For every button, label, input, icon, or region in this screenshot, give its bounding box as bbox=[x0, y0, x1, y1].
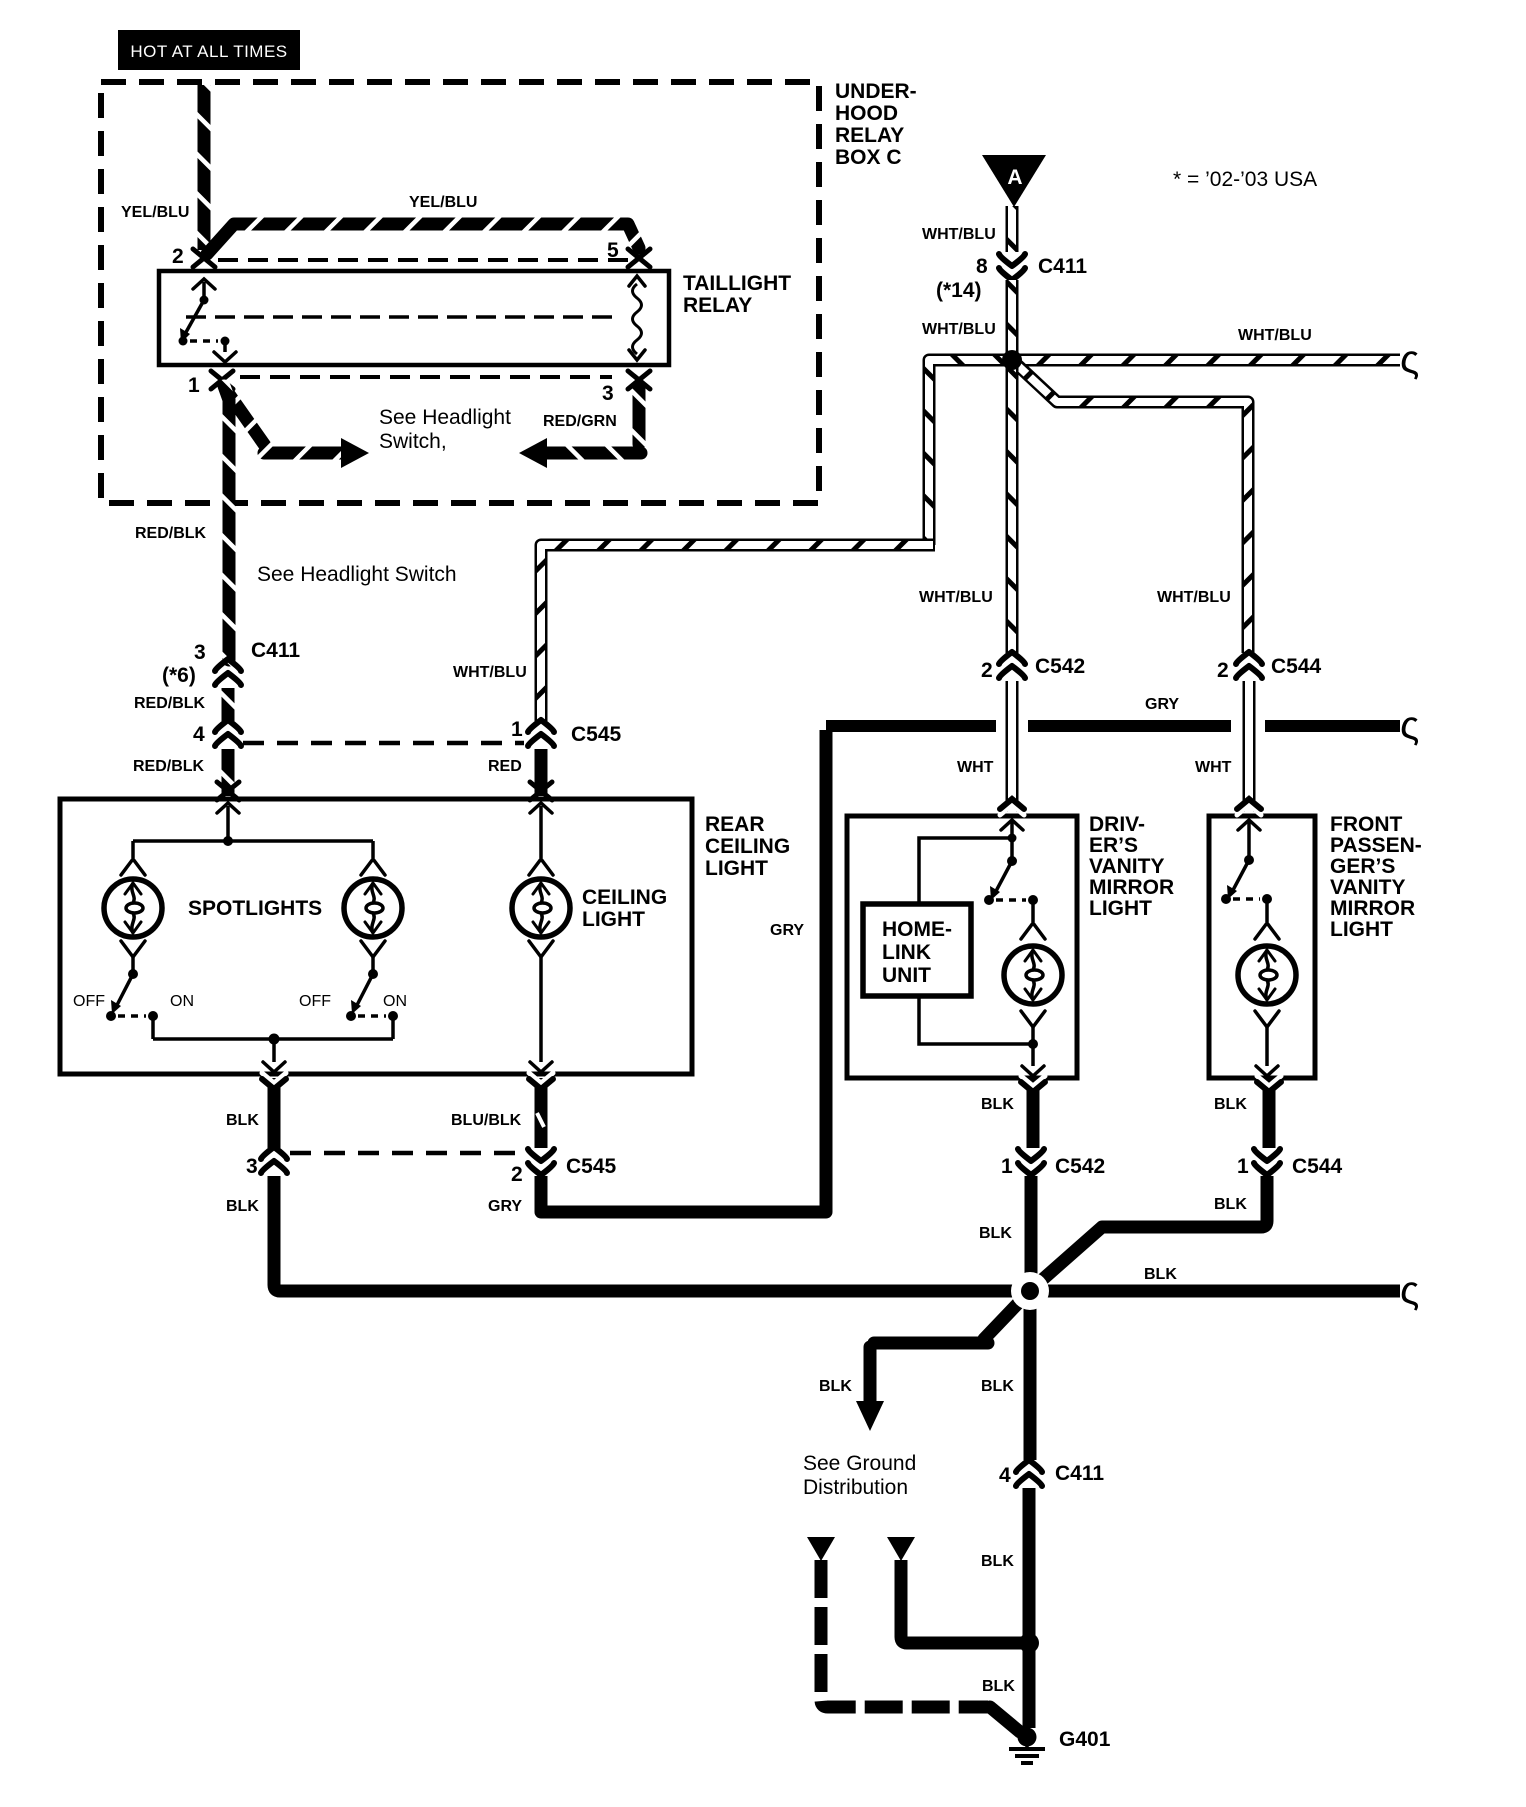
connector C411 pin 3 bbox=[162, 639, 300, 687]
connector C411 pin 8 bbox=[936, 254, 1087, 302]
wire WHT/BLU junction to C545 pin 1 (left path) bbox=[541, 360, 1012, 721]
svg-text:BLK: BLK bbox=[982, 1678, 1015, 1695]
svg-text:RED/BLK: RED/BLK bbox=[133, 758, 205, 775]
label BLK bbox=[226, 1112, 259, 1129]
driver vanity mirror light box bbox=[847, 816, 1077, 1078]
svg-text:4: 4 bbox=[193, 723, 205, 746]
connector C542 pin 1 bbox=[1001, 1149, 1105, 1178]
label WHT/BLU above C544 bbox=[1157, 589, 1231, 606]
bulb passenger vanity bbox=[1238, 923, 1296, 1027]
text See Ground Distribution bbox=[803, 1452, 916, 1499]
svg-text:2: 2 bbox=[981, 659, 993, 682]
label REAR CEILING LIGHT bbox=[705, 813, 790, 880]
wire YEL/BLU horizontal relay pin 2 to pin 5 bbox=[207, 224, 639, 254]
connector C545 pin 1 bbox=[511, 718, 622, 746]
wire WHT/BLU from C411-8 to junction bbox=[1006, 280, 1019, 360]
svg-text:1: 1 bbox=[1237, 1155, 1249, 1178]
svg-text:BLK: BLK bbox=[979, 1225, 1012, 1242]
rear ceiling light box bbox=[60, 799, 692, 1074]
svg-text:BLK: BLK bbox=[819, 1378, 852, 1395]
svg-text:(*14): (*14) bbox=[936, 279, 982, 302]
junction dot bbox=[269, 1034, 280, 1045]
label UNDER-HOOD RELAY BOX C bbox=[835, 80, 917, 169]
svg-text:TAILLIGHT: TAILLIGHT bbox=[683, 272, 791, 295]
label RED/BLK bbox=[133, 758, 205, 775]
label WHT bbox=[957, 759, 994, 776]
underhood relay box C (dashed boundary) bbox=[101, 82, 819, 503]
open end hook BLK bbox=[1400, 1269, 1419, 1313]
svg-text:5: 5 bbox=[607, 239, 619, 262]
svg-text:GRY: GRY bbox=[770, 922, 804, 939]
wire BLK junction down to C411-4 bbox=[1024, 1291, 1037, 1460]
svg-text:GER’S: GER’S bbox=[1330, 855, 1395, 878]
svg-text:WHT/BLU: WHT/BLU bbox=[1238, 327, 1312, 344]
wire RED/BLK between C411 pins 3 and 4 bbox=[222, 688, 235, 721]
svg-text:BLK: BLK bbox=[1214, 1196, 1247, 1213]
svg-text:YEL/BLU: YEL/BLU bbox=[121, 204, 189, 221]
wire BLK C542-1 to junction bbox=[1025, 1176, 1038, 1291]
svg-text:See Ground: See Ground bbox=[803, 1452, 916, 1475]
relay terminal 3 bbox=[602, 371, 650, 405]
svg-text:BLK: BLK bbox=[226, 1198, 259, 1215]
wire WHT/BLU from A to C411 pin 8 bbox=[1006, 206, 1019, 252]
relay terminal 2 bbox=[172, 245, 215, 268]
svg-text:RED/GRN: RED/GRN bbox=[543, 413, 617, 430]
svg-text:Distribution: Distribution bbox=[803, 1476, 908, 1499]
label WHT/BLU above C542 bbox=[919, 589, 993, 606]
dashed link C411-4 to C545-1 bbox=[243, 741, 524, 746]
svg-text:BLK: BLK bbox=[1144, 1266, 1177, 1283]
svg-text:8: 8 bbox=[976, 255, 988, 278]
wire YEL/BLU vertical from hot feed to relay pin 2 bbox=[198, 85, 211, 250]
relay internal switch bbox=[179, 279, 237, 362]
label FRONT PASSENGER S VANITY MIRROR LIGHT bbox=[1330, 813, 1422, 941]
label OFF / ON switch 1 bbox=[73, 993, 194, 1010]
bulb spotlight 2 bbox=[344, 859, 402, 957]
svg-text:VANITY: VANITY bbox=[1330, 876, 1405, 899]
switch spotlight 1 bbox=[106, 957, 158, 1039]
bulb driver vanity bbox=[1004, 923, 1062, 1027]
relay coil bbox=[629, 276, 645, 360]
label WHT/BLU bbox=[453, 664, 527, 681]
relay terminal 1 bbox=[188, 371, 233, 397]
junction dot ground bus bbox=[1019, 1633, 1039, 1653]
svg-text:OFF: OFF bbox=[299, 993, 331, 1010]
svg-text:HOME-: HOME- bbox=[882, 918, 952, 941]
label BLK bbox=[981, 1096, 1014, 1113]
svg-text:CEILING: CEILING bbox=[705, 835, 790, 858]
wire RED/GRN from relay pin 3 (arrow left) bbox=[519, 388, 641, 468]
svg-text:G401: G401 bbox=[1059, 1728, 1111, 1751]
connector C544 pin 1 bbox=[1237, 1149, 1343, 1178]
svg-text:* = ’02-’03 USA: * = ’02-’03 USA bbox=[1173, 168, 1317, 191]
svg-text:2: 2 bbox=[172, 245, 184, 268]
connector C411 pin 4 bbox=[999, 1460, 1104, 1487]
label BLK bbox=[982, 1678, 1015, 1695]
svg-text:C544: C544 bbox=[1292, 1155, 1343, 1178]
wire GRY from C545-2 to riser bbox=[541, 1176, 826, 1212]
svg-text:4: 4 bbox=[999, 1464, 1011, 1487]
wire BLU/BLK ceiling light out of box bbox=[529, 1073, 553, 1148]
bulb ceiling light bbox=[512, 859, 570, 957]
svg-text:FRONT: FRONT bbox=[1330, 813, 1402, 836]
exit arrow spotlights bbox=[263, 1062, 285, 1072]
wire RED/BLK relay pin 1 down to C411 bbox=[224, 386, 229, 660]
switch spotlight 2 bbox=[346, 957, 398, 1039]
svg-text:BLU/BLK: BLU/BLK bbox=[451, 1112, 522, 1129]
label BLU/BLK bbox=[451, 1112, 522, 1129]
svg-text:BLK: BLK bbox=[981, 1378, 1014, 1395]
junction dot bbox=[223, 836, 233, 846]
ground G401 bbox=[1009, 1728, 1111, 1764]
text See Headlight Switch bbox=[257, 563, 457, 586]
label RED/BLK bbox=[134, 695, 206, 712]
svg-text:RELAY: RELAY bbox=[683, 294, 752, 317]
label BLK bbox=[979, 1225, 1012, 1242]
wire BLK C544-1 diagonal to junction bbox=[1034, 1176, 1267, 1287]
text See Headlight Switch, bbox=[379, 406, 511, 453]
label YEL/BLU left bbox=[121, 204, 189, 221]
svg-text:C545: C545 bbox=[566, 1155, 617, 1178]
entry chevron driver box bbox=[1000, 799, 1024, 830]
label RED/BLK bbox=[135, 525, 207, 542]
wire WHT/BLU junction down to C542 pin 2 bbox=[1006, 360, 1019, 653]
wire GRY vertical from C545-2 riser bbox=[820, 730, 833, 1206]
svg-text:GRY: GRY bbox=[1145, 696, 1179, 713]
internal ground bus of spotlights bbox=[153, 1039, 393, 1062]
label WHT/BLU bbox=[922, 321, 996, 338]
svg-text:ON: ON bbox=[170, 993, 194, 1010]
svg-text:LIGHT: LIGHT bbox=[1330, 918, 1393, 941]
svg-text:WHT/BLU: WHT/BLU bbox=[453, 664, 527, 681]
svg-text:ER’S: ER’S bbox=[1089, 834, 1138, 857]
svg-text:YEL/BLU: YEL/BLU bbox=[409, 194, 477, 211]
svg-text:1: 1 bbox=[511, 718, 523, 741]
switch passenger vanity bbox=[1221, 822, 1272, 922]
svg-text:WHT/BLU: WHT/BLU bbox=[922, 321, 996, 338]
incoming ground triangle 1 (dashed) bbox=[807, 1537, 1020, 1732]
svg-text:ς: ς bbox=[1400, 704, 1419, 748]
label BLK bbox=[1214, 1196, 1247, 1213]
ceiling light feed entry bbox=[530, 782, 552, 813]
open end hook GRY bbox=[1400, 704, 1419, 748]
svg-text:LIGHT: LIGHT bbox=[1089, 897, 1152, 920]
svg-text:WHT/BLU: WHT/BLU bbox=[919, 589, 993, 606]
dashed line relay bottom terminals bbox=[240, 375, 612, 379]
svg-text:(*6): (*6) bbox=[162, 664, 196, 687]
label SPOTLIGHTS bbox=[188, 897, 322, 920]
label BLK bbox=[981, 1553, 1014, 1570]
svg-text:MIRROR: MIRROR bbox=[1089, 876, 1174, 899]
label OFF / ON switch 2 bbox=[299, 993, 407, 1010]
dashed line relay top terminals bbox=[218, 258, 628, 262]
svg-text:OFF: OFF bbox=[73, 993, 105, 1010]
svg-text:LIGHT: LIGHT bbox=[705, 857, 768, 880]
svg-text:DRIV-: DRIV- bbox=[1089, 813, 1145, 836]
svg-text:WHT: WHT bbox=[1195, 759, 1232, 776]
svg-text:3: 3 bbox=[194, 641, 206, 664]
switch driver vanity bbox=[984, 856, 1038, 922]
junction dot homelink tap bbox=[1008, 834, 1017, 843]
relay terminal 5 bbox=[607, 239, 650, 267]
svg-text:1: 1 bbox=[1001, 1155, 1013, 1178]
svg-text:See Headlight: See Headlight bbox=[379, 406, 511, 429]
wire WHT/BLU junction diagonal to C544 pin 2 bbox=[1012, 360, 1248, 653]
svg-text:3: 3 bbox=[602, 382, 614, 405]
svg-text:GRY: GRY bbox=[488, 1198, 522, 1215]
svg-text:SPOTLIGHTS: SPOTLIGHTS bbox=[188, 897, 322, 920]
dashed link conn3 to C545-2 bbox=[290, 1151, 524, 1156]
label RED bbox=[488, 758, 522, 775]
svg-text:C542: C542 bbox=[1055, 1155, 1105, 1178]
connector C411 pin 4 bbox=[193, 720, 241, 746]
label RED/GRN bbox=[543, 413, 617, 430]
open end hook bbox=[1400, 338, 1419, 382]
svg-text:RELAY: RELAY bbox=[835, 124, 904, 147]
svg-text:ς: ς bbox=[1400, 1269, 1419, 1313]
svg-text:BLK: BLK bbox=[1214, 1096, 1247, 1113]
label GRY bbox=[488, 1198, 522, 1215]
exit arrow ceiling light bbox=[530, 1062, 552, 1072]
svg-text:WHT/BLU: WHT/BLU bbox=[1157, 589, 1231, 606]
svg-text:BOX C: BOX C bbox=[835, 146, 902, 169]
label BLK bus bbox=[1144, 1266, 1177, 1283]
svg-text:LIGHT: LIGHT bbox=[582, 908, 645, 931]
bulb spotlight 1 bbox=[104, 859, 162, 957]
svg-text:WHT: WHT bbox=[957, 759, 994, 776]
wire RED C545-1 into box bbox=[535, 749, 548, 796]
label BLK bbox=[819, 1378, 852, 1395]
wire WHT/BLU junction to right (open end) bbox=[1012, 354, 1400, 367]
label TAILLIGHT RELAY bbox=[683, 272, 791, 317]
ceiling light internal wires bbox=[539, 806, 543, 1062]
svg-text:VANITY: VANITY bbox=[1089, 855, 1164, 878]
label BLK bbox=[981, 1378, 1014, 1395]
wire WHT C544-2 to passenger vanity light bbox=[1243, 681, 1256, 812]
svg-text:C411: C411 bbox=[251, 639, 300, 662]
label GRY bbox=[770, 922, 804, 939]
svg-text:LINK: LINK bbox=[882, 941, 931, 964]
incoming ground triangle 2 bbox=[887, 1537, 1022, 1643]
relay internal dashed control line bbox=[186, 315, 616, 319]
label DRIVER S VANITY MIRROR LIGHT bbox=[1089, 813, 1174, 920]
entry chevron passenger box bbox=[1237, 799, 1261, 830]
wire BLK long bus to junction bbox=[274, 1176, 1400, 1291]
label WHT bbox=[1195, 759, 1232, 776]
wire WHT C542-2 to driver vanity light bbox=[1006, 681, 1019, 812]
svg-text:HOOD: HOOD bbox=[835, 102, 898, 125]
svg-text:C544: C544 bbox=[1271, 655, 1322, 678]
main junction (bus node) bbox=[1011, 1272, 1049, 1310]
entry terminal RED/BLK at box bbox=[217, 782, 239, 813]
wire BLK branch to ground distribution (arrow down) bbox=[856, 1295, 1026, 1431]
label CEILING LIGHT bbox=[582, 886, 667, 931]
wire BLK to G401 bbox=[1023, 1643, 1036, 1728]
svg-text:MIRROR: MIRROR bbox=[1330, 897, 1415, 920]
label WHT/BLU bbox=[922, 226, 996, 243]
wire RED/BLK branch to headlight switch (arrow right) bbox=[226, 390, 369, 468]
wire BLK C411-4 down bbox=[1023, 1488, 1036, 1643]
connector C542 pin 2 bbox=[981, 652, 1085, 682]
svg-text:WHT/BLU: WHT/BLU bbox=[922, 226, 996, 243]
svg-text:RED/BLK: RED/BLK bbox=[135, 525, 207, 542]
svg-text:UNDER-: UNDER- bbox=[835, 80, 917, 103]
label BLK bbox=[1214, 1096, 1247, 1113]
driver internal feed bbox=[1010, 822, 1014, 861]
power label HOT AT ALL TIMES bbox=[118, 30, 300, 70]
svg-text:UNIT: UNIT bbox=[882, 964, 931, 987]
note *=02-03 USA bbox=[1173, 168, 1317, 191]
wire BLK passenger vanity to C544-1 bbox=[1257, 1076, 1281, 1148]
exit arrow passenger bbox=[1256, 1066, 1278, 1076]
connector C544 pin 2 bbox=[1217, 652, 1322, 682]
connector C545 pin 2 bbox=[511, 1149, 617, 1186]
svg-text:BLK: BLK bbox=[981, 1096, 1014, 1113]
svg-text:ON: ON bbox=[383, 993, 407, 1010]
label BLK below conn3 bbox=[226, 1198, 259, 1215]
exit arrow driver bbox=[1022, 1066, 1044, 1076]
svg-text:C542: C542 bbox=[1035, 655, 1085, 678]
svg-text:C545: C545 bbox=[571, 723, 622, 746]
taillight relay box bbox=[159, 271, 669, 365]
node A (power triangle) bbox=[982, 155, 1046, 207]
svg-text:REAR: REAR bbox=[705, 813, 765, 836]
svg-text:RED: RED bbox=[488, 758, 522, 775]
wire BLK spotlights out of box bbox=[262, 1073, 286, 1148]
svg-text:BLK: BLK bbox=[226, 1112, 259, 1129]
homelink tap wire bbox=[919, 838, 1012, 904]
svg-text:2: 2 bbox=[1217, 659, 1229, 682]
svg-text:ς: ς bbox=[1400, 338, 1419, 382]
svg-text:2: 2 bbox=[511, 1163, 523, 1186]
junction dot driver exit bbox=[1028, 1039, 1038, 1049]
home-link unit box bbox=[863, 904, 971, 996]
svg-text:A: A bbox=[1007, 166, 1022, 189]
label GRY bbox=[1145, 696, 1179, 713]
svg-text:C411: C411 bbox=[1055, 1462, 1104, 1485]
wire BLK driver vanity to C542-1 bbox=[1021, 1076, 1045, 1148]
label WHT/BLU right bbox=[1238, 327, 1312, 344]
driver bulb to exit bbox=[919, 996, 1033, 1066]
svg-text:BLK: BLK bbox=[981, 1553, 1014, 1570]
label YEL/BLU top bbox=[409, 194, 477, 211]
junction dot WHT/BLU bbox=[1002, 350, 1022, 370]
front passenger vanity mirror light box bbox=[1209, 816, 1315, 1078]
svg-text:See Headlight Switch: See Headlight Switch bbox=[257, 563, 457, 586]
svg-text:PASSEN-: PASSEN- bbox=[1330, 834, 1422, 857]
svg-text:1: 1 bbox=[188, 374, 200, 397]
svg-text:CEILING: CEILING bbox=[582, 886, 667, 909]
svg-text:3: 3 bbox=[246, 1155, 258, 1178]
wire GRY bus horizontal bbox=[826, 720, 1400, 732]
svg-text:HOT AT ALL TIMES: HOT AT ALL TIMES bbox=[130, 42, 287, 61]
connector 3 (in-line BLK) bbox=[246, 1147, 287, 1178]
svg-text:C411: C411 bbox=[1038, 255, 1087, 278]
internal wire to spotlights bbox=[133, 806, 373, 858]
svg-text:RED/BLK: RED/BLK bbox=[134, 695, 206, 712]
wire RED/BLK into rear ceiling light bbox=[222, 749, 235, 796]
svg-text:Switch,: Switch, bbox=[379, 430, 447, 453]
passenger bulb to exit bbox=[1265, 1027, 1269, 1066]
